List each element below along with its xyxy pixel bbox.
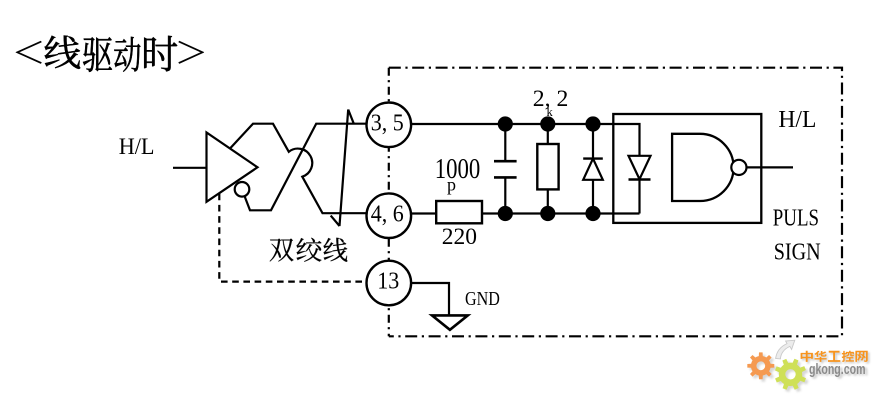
title 线驱动时 xyxy=(16,35,204,71)
svg-text:1000: 1000 xyxy=(435,154,481,185)
svg-text:p: p xyxy=(447,174,456,194)
junction top-middle xyxy=(540,116,555,131)
node pin 13 xyxy=(367,261,412,306)
junction bottom-left xyxy=(498,206,513,221)
op-amp driver U1 xyxy=(207,133,258,202)
junction top-right xyxy=(585,116,600,131)
opto-coupler box U2 xyxy=(613,114,761,223)
svg-text:gkong.com: gkong.com xyxy=(809,361,866,378)
junction top-left xyxy=(498,116,513,131)
diode D1 xyxy=(592,124,594,159)
wire B from bubble to pin 3,5 xyxy=(245,124,367,211)
svg-text:3, 5: 3, 5 xyxy=(371,109,404,136)
svg-text:H/L: H/L xyxy=(778,107,816,133)
twisted-pair slash marker xyxy=(331,110,354,227)
wire A with hop arc (to pin 4,6) xyxy=(230,124,367,214)
NAND gate U3 xyxy=(672,134,734,201)
label 双绞线 xyxy=(270,238,348,262)
svg-text:13: 13 xyxy=(377,268,399,295)
LED D2 inside opto xyxy=(629,156,651,179)
wire pin 13 to ground xyxy=(411,283,449,315)
wire pin 4,6 to resistor 220 xyxy=(411,212,436,214)
resistor R2 2,2k xyxy=(547,124,549,144)
svg-text:220: 220 xyxy=(442,224,477,250)
ground xyxy=(432,315,468,329)
node pin 4,6 xyxy=(367,193,412,238)
svg-text:H/L: H/L xyxy=(119,134,155,160)
capacitor C1 1000p xyxy=(504,124,506,161)
wire bottom rail xyxy=(482,212,640,214)
junction bottom-middle xyxy=(540,206,555,221)
svg-text:PULS: PULS xyxy=(773,204,819,231)
svg-text:SIGN: SIGN xyxy=(774,239,821,266)
node pin 3,5 xyxy=(367,103,412,148)
svg-text:GND: GND xyxy=(465,288,500,310)
dash-dot left edge through pins xyxy=(388,68,390,337)
inverting output bubble xyxy=(235,182,250,197)
svg-text:4, 6: 4, 6 xyxy=(371,200,404,227)
junction bottom-right xyxy=(585,206,600,221)
gkong logo xyxy=(747,340,869,392)
wire gate output xyxy=(747,166,794,168)
wire input xyxy=(173,167,207,169)
dashed feedback wire to pin 13 xyxy=(219,194,366,282)
dash-dot enclosure border xyxy=(389,68,842,337)
resistor R1 220 xyxy=(436,201,482,223)
wire top rail xyxy=(411,124,639,156)
